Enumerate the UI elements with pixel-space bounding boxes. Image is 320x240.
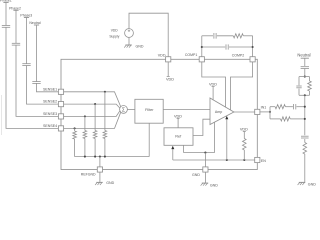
resistor R10 (right rail) [303,143,307,155]
wire R2 bottom [84,139,86,157]
node comp junction left [201,46,203,48]
resistor R3 (SENSE2) [93,131,97,139]
node rail IN1 lower [304,118,306,120]
wire RC right lower [309,91,311,95]
node rail refgnd [99,156,101,158]
svg-text:Filter: Filter [145,108,154,112]
wire gnd pin to ground [204,172,206,183]
resistor R4 (SENSE1) [103,131,107,139]
pin SENSE3 [43,112,64,119]
wire EN line [173,159,255,161]
svg-text:REFGND: REFGND [81,173,96,177]
node rail R4 [104,156,106,158]
node SENSE2 junction [94,103,96,105]
wire COMP1 riser [201,36,203,57]
wire Neutral to SENSE1 [37,83,59,91]
wire ref ground riser [183,145,185,152]
svg-text:VDD: VDD [240,128,248,132]
wire SENSE3 drop [84,116,86,130]
wire refgnd pin to ground [99,172,101,182]
svg-text:SENSE1: SENSE1 [43,87,57,91]
node comp junction right [252,46,254,48]
capacitor C9 (IN1 upper) [294,104,296,109]
wire RC right upper [309,77,311,81]
wire EN to amp (arrow) [225,116,228,160]
node Phase1 terminal [0,0,12,3]
svg-text:Neutral: Neutral [29,21,41,25]
wire VDD supply top [129,13,168,57]
wire IN1 stub [260,111,270,113]
svg-text:COMP2: COMP2 [232,54,245,58]
svg-text:GND: GND [192,173,200,177]
svg-text:Phase2: Phase2 [9,6,21,10]
wire R4 bottom [104,139,106,157]
wire IN1 upper branch [270,106,275,108]
node Neutral-right terminal [297,53,310,59]
svg-text:EN: EN [261,159,266,163]
ground (VDD supply) [124,44,144,48]
wire SENSE2 to mux [64,104,120,108]
pin REFGND [81,167,103,177]
node RC top junction [304,76,306,78]
capacitor C5 (comp top) [214,33,216,39]
filter block U3 [135,99,163,123]
node EN pullup junction [243,159,245,161]
resistor R5 (comp top) [233,34,243,38]
wire Phase1 upper [5,3,7,26]
wire supply to ground [128,37,130,45]
wire Phase1 to SENSE4 [6,27,58,128]
svg-text:Supply: Supply [109,34,119,38]
capacitor C4 (Neutral) [32,82,40,84]
wire stub left margin [0,95,2,135]
wire R10 to ground [304,154,306,182]
wire comp lower branch left [202,46,225,48]
resistor R6 (VDD pullup) [243,132,247,161]
capacitor C12 (right rail) [301,136,309,138]
node IN1 split [269,111,271,113]
svg-text:GND: GND [136,44,144,48]
svg-text:Neutral: Neutral [297,53,310,58]
pin VDD [158,53,171,62]
svg-text:SENSE2: SENSE2 [43,100,57,104]
wire internal ground line [184,152,215,154]
wire IN1 lower branch [270,118,281,120]
wire filter ground [148,123,150,156]
wire amp ground [214,122,216,152]
node RC bottom junction [304,94,306,96]
node gnd line junction [204,152,206,154]
power flag VDD internal [166,62,174,81]
wire R3 bottom [94,139,96,157]
summing node U2 (sigma) [120,106,128,114]
wire neutral-r upper [304,58,306,66]
pin COMP2 [232,54,255,62]
wire R8 to rail [290,118,305,120]
ground (REFGND) [95,181,114,185]
wire RC left upper [298,77,300,86]
ground (GND pin) [201,183,219,187]
wire sigma to filter [127,108,134,110]
wire COMP1 to amp [202,62,226,107]
capacitor C2 (Phase2) [12,43,20,45]
svg-text:COMP1: COMP1 [185,53,198,57]
wire right rail upper [304,95,306,135]
wire Phase2 to SENSE3 [16,45,58,116]
pin SENSE1 [43,87,64,94]
voltage source VDD Supply [109,29,133,39]
wire rail to R10 [304,139,306,143]
svg-text:VDD: VDD [209,83,217,87]
pin SENSE4 [43,124,64,131]
svg-text:SENSE4: SENSE4 [43,124,57,128]
wire C9 to rail [297,106,305,108]
wire neutral-r to RC [304,69,306,77]
wire ref output to amp [193,119,210,135]
svg-text:Ref: Ref [175,135,182,139]
wire RC left lower [298,89,300,96]
svg-text:VDD: VDD [111,29,119,33]
svg-text:SENSE3: SENSE3 [43,112,57,116]
wire SENSE4 drop [74,128,76,131]
svg-text:Amp: Amp [215,110,222,114]
capacitor C1 (Phase1) [2,26,10,28]
power flag VDD ref [174,114,182,128]
wire R1 bottom [74,139,76,157]
svg-text:VDD: VDD [166,77,174,81]
resistor R7 (IN1 upper) [275,105,285,109]
node Phase3 terminal [20,14,32,18]
node Phase2 terminal [9,6,21,10]
wire Neutral upper [36,25,38,82]
pin SENSE2 [43,100,64,107]
resistor R9 (parallel) [308,81,312,91]
power flag VDD amp [209,83,217,100]
node SENSE1 junction [104,91,106,93]
svg-text:VDD: VDD [174,114,182,118]
wire Phase3 upper [26,18,28,64]
op-amp Amp [210,98,234,125]
node SENSE3 junction [84,115,86,117]
wire EN to ref (arrow) [171,146,174,160]
wire comp top branch right [243,35,252,37]
svg-text:VDD: VDD [158,53,166,57]
capacitor C11 (parallel) [296,86,301,88]
svg-text:GND: GND [308,182,316,186]
wire RC bottom bar [299,94,310,96]
svg-text:Phase1: Phase1 [0,0,12,3]
wire refgnd rail [75,156,150,158]
wire COMP2 to amp [231,62,253,110]
op-amp IC U1 outline [61,59,257,169]
node rail R3 [94,156,96,158]
wire Phase3 to SENSE2 [27,66,59,105]
capacitor C3 (Phase3) [22,64,30,66]
wire COMP2 riser [252,36,254,57]
resistor R1 (SENSE4) [73,131,77,139]
wire IN1 split vertical [269,107,271,119]
wire SENSE3 to mux [64,111,120,117]
wire gnd pin riser [204,153,206,167]
resistor R8 (IN1 lower) [281,117,291,121]
wire SENSE4 to mux [64,112,121,128]
reference block U4 Ref [164,128,193,146]
svg-text:IN1: IN1 [261,106,267,110]
wire comp lower branch right [229,46,253,48]
svg-text:GND: GND [106,181,114,185]
svg-text:GND: GND [210,184,218,188]
pin EN [255,157,267,162]
wire SENSE1 drop [104,92,106,131]
ground (right rail) [298,182,317,186]
svg-text:Σ: Σ [122,108,125,114]
wire comp top branch mid [217,35,233,37]
wire R7 to C9 [285,106,293,108]
node EN amp junction [226,159,228,161]
wire SENSE2 drop [94,104,96,130]
pin IN1 [255,106,266,115]
svg-text:Phase3: Phase3 [20,14,32,18]
node SENSE4 junction [74,127,76,129]
node Neutral-left terminal [29,21,41,25]
resistor R2 (SENSE3) [83,131,87,139]
wire amp output [234,111,255,113]
wire Phase2 upper [15,10,17,43]
wire filter output [163,108,210,110]
capacitor C10 (neutral-r) [301,67,309,69]
wire refgnd riser [99,157,101,167]
node rail IN1 upper [304,106,306,108]
wire RC top bar [299,76,310,78]
node rail R2 [84,156,86,158]
wire comp top branch left [202,35,213,37]
pin COMP1 [185,53,205,62]
capacitor C6 (comp lower) [226,44,228,49]
power flag VDD pullup [240,128,248,132]
pin GND [192,167,208,177]
wire SENSE1 to mux [64,92,121,107]
